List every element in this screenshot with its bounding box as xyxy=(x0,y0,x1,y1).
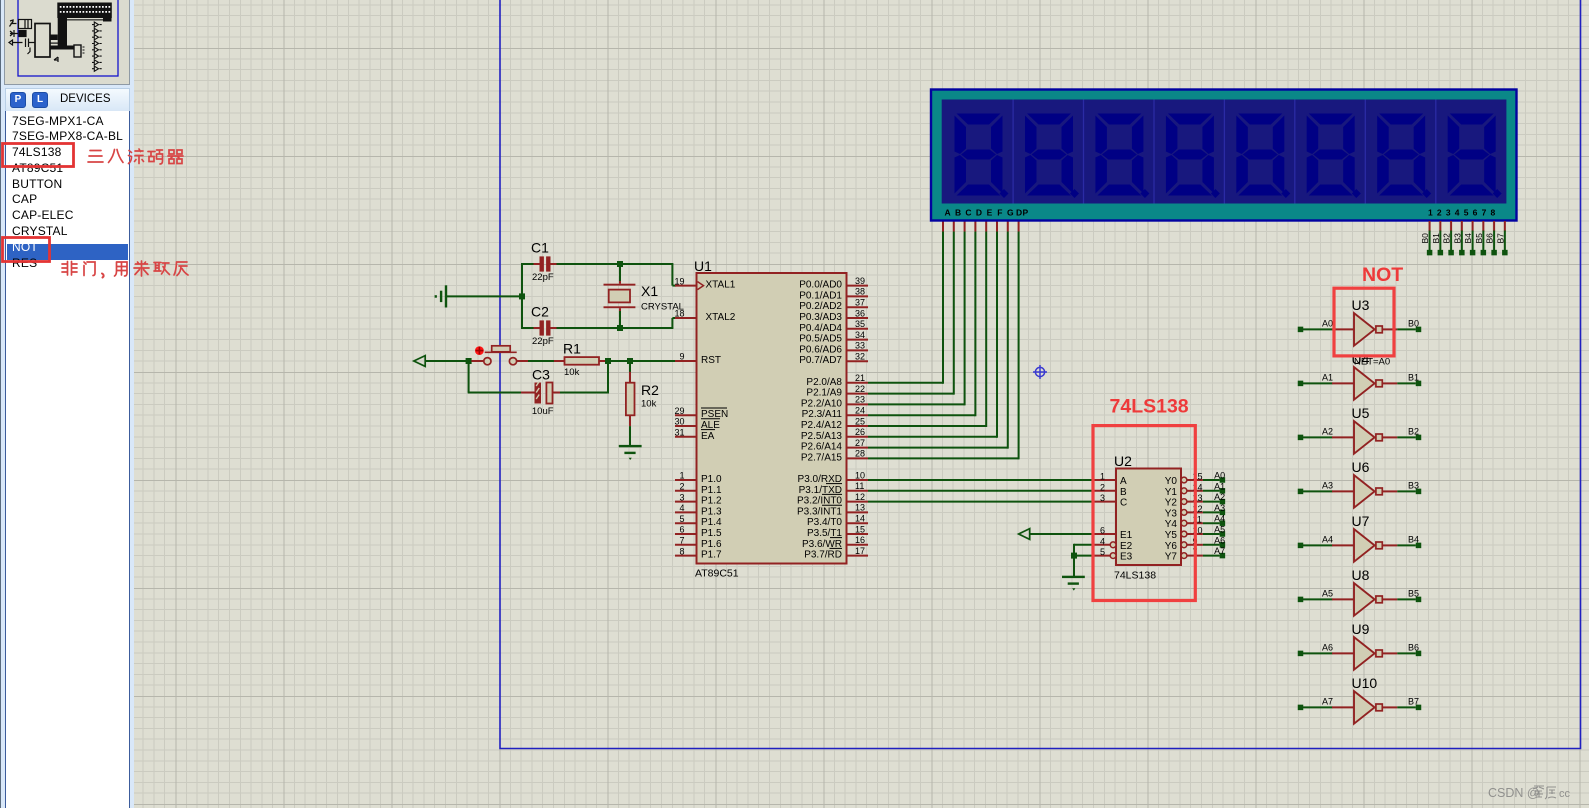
svg-text:P2.6/A14: P2.6/A14 xyxy=(801,442,843,453)
svg-text:38: 38 xyxy=(855,287,865,297)
wire P3.0 to 74LS138 A xyxy=(868,479,1094,481)
ground (left, rotated) xyxy=(445,285,447,307)
pin 31 EA xyxy=(675,436,697,438)
svg-text:P3.4/T0: P3.4/T0 xyxy=(807,517,842,528)
push button xyxy=(471,360,484,362)
svg-text:B: B xyxy=(1120,487,1127,498)
wire Y1 to net A1 xyxy=(1203,490,1220,492)
pin 25 P2.4/A12 xyxy=(847,425,869,427)
pin 32 P0.7/AD7 xyxy=(847,360,869,362)
svg-text:Y3: Y3 xyxy=(1165,508,1178,519)
pin 18 XTAL2 xyxy=(675,317,697,319)
wire C1 right to crystal junction xyxy=(551,263,558,265)
svg-text:DP: DP xyxy=(1016,208,1029,218)
svg-text:P1.2: P1.2 xyxy=(701,496,722,507)
wire P2.1 to display segment pin xyxy=(868,393,954,395)
svg-text:3: 3 xyxy=(679,492,684,502)
pin digit-select 7 xyxy=(1493,221,1495,232)
svg-text:P2.3/A11: P2.3/A11 xyxy=(802,409,843,420)
svg-text:A0: A0 xyxy=(1322,319,1333,329)
svg-text:A5: A5 xyxy=(1214,525,1225,535)
svg-text:39: 39 xyxy=(855,276,865,286)
origin crosshair marker xyxy=(1033,365,1047,379)
svg-text:74LS138: 74LS138 xyxy=(1110,396,1189,418)
wire P2.0 to display segment pin xyxy=(868,382,943,384)
svg-text:29: 29 xyxy=(674,406,684,416)
pin 26 P2.5/A13 xyxy=(847,436,869,438)
wire P2.7 to display segment pin xyxy=(868,457,1019,459)
svg-text:15: 15 xyxy=(855,524,865,534)
svg-text:5: 5 xyxy=(1100,547,1105,557)
svg-text:7: 7 xyxy=(679,536,684,546)
svg-text:Y5: Y5 xyxy=(1165,530,1178,541)
annotation text 三八译码器 xyxy=(88,151,103,163)
annotation red box around NOT list item xyxy=(3,238,50,262)
svg-text:NOT: NOT xyxy=(1362,264,1403,286)
pin 16 P3.6/WR xyxy=(847,544,869,546)
wire C3 right to R1 junction xyxy=(553,392,560,394)
pin 21 P2.0/A8 xyxy=(847,382,869,384)
svg-text:5: 5 xyxy=(679,514,684,524)
pin 37 P0.2/AD2 xyxy=(847,306,869,308)
svg-text:11: 11 xyxy=(855,481,864,491)
preview decoder xyxy=(74,45,81,57)
svg-text:A2: A2 xyxy=(1322,427,1333,437)
svg-text:17: 17 xyxy=(855,546,865,556)
svg-text:Y2: Y2 xyxy=(1165,498,1178,509)
svg-text:12345678: 12345678 xyxy=(1428,208,1499,218)
svg-text:6: 6 xyxy=(679,525,684,535)
wire Y2 to net A2 xyxy=(1203,501,1220,503)
pin 13 Y2 xyxy=(1181,499,1187,505)
svg-text:A0: A0 xyxy=(1214,471,1225,481)
terminal arrow (RST default) xyxy=(414,356,425,367)
wire P2.6 to display segment pin xyxy=(868,447,1008,449)
svg-text:U7: U7 xyxy=(1352,513,1370,529)
svg-text:74LS138: 74LS138 xyxy=(1114,570,1156,582)
svg-text:22pF: 22pF xyxy=(532,336,554,347)
svg-text:AT89C51: AT89C51 xyxy=(695,568,739,580)
svg-text:U3: U3 xyxy=(1352,297,1370,313)
svg-text:34: 34 xyxy=(855,330,865,340)
svg-text:P1.5: P1.5 xyxy=(701,528,722,539)
pin 12 Y3 xyxy=(1181,510,1187,516)
svg-text:33: 33 xyxy=(855,341,865,351)
svg-text:C1: C1 xyxy=(531,240,549,256)
pin 39 P0.0/AD0 xyxy=(847,285,869,287)
svg-text:P3.7/RD: P3.7/RD xyxy=(804,550,842,561)
wire Y3 to net A3 xyxy=(1203,511,1220,513)
wire P3.2 to 74LS138 C xyxy=(868,501,1094,503)
preview mcu xyxy=(35,24,50,58)
pin 19 XTAL1 xyxy=(675,285,697,287)
svg-text:P1.7: P1.7 xyxy=(701,550,722,561)
svg-text:C2: C2 xyxy=(531,304,549,320)
svg-text:16: 16 xyxy=(855,535,865,545)
annotation red box 74LS138 xyxy=(1093,426,1195,601)
pin digit-select 2 xyxy=(1439,221,1441,232)
svg-text:12: 12 xyxy=(855,492,865,502)
preview left components xyxy=(9,20,35,55)
pin 2 P1.1 xyxy=(675,490,697,492)
svg-text:35: 35 xyxy=(855,319,865,329)
wire corner up to XTAL2 xyxy=(671,318,673,329)
svg-text:Y6: Y6 xyxy=(1165,541,1178,552)
svg-text:A: A xyxy=(945,208,951,218)
svg-text:U8: U8 xyxy=(1352,567,1370,583)
svg-text:E3: E3 xyxy=(1120,552,1133,563)
wire to C3 xyxy=(468,392,522,394)
pin 29 PSEN xyxy=(675,414,697,416)
svg-text:P0.5/AD5: P0.5/AD5 xyxy=(799,334,842,345)
svg-text:13: 13 xyxy=(855,503,865,513)
pin 14 Y1 xyxy=(1181,488,1187,494)
wire Y0 to net A0 xyxy=(1203,479,1220,481)
svg-text:B2: B2 xyxy=(1408,427,1419,437)
pin 38 P0.1/AD1 xyxy=(847,295,869,297)
svg-text:9: 9 xyxy=(679,352,684,362)
svg-text:10uF: 10uF xyxy=(532,406,554,417)
pin 6 E1 xyxy=(1094,533,1116,535)
display 7SEG-MPX8-CA-BL frame xyxy=(931,90,1517,221)
pin 1 P1.0 xyxy=(675,479,697,481)
svg-text:4: 4 xyxy=(679,503,684,513)
wire Y6 to net A6 xyxy=(1203,544,1220,546)
pin digit-select 3 xyxy=(1450,221,1452,232)
wire Y5 to net A5 xyxy=(1203,533,1220,535)
wire C2 left xyxy=(521,327,534,329)
resistor R1 xyxy=(565,357,600,365)
node junction RST/button/C3 xyxy=(466,358,472,364)
wire X1 bottom lead xyxy=(619,308,621,311)
display digit 8 xyxy=(1448,114,1496,196)
svg-text:B7: B7 xyxy=(1408,697,1419,707)
svg-text:P0.3/AD3: P0.3/AD3 xyxy=(799,312,842,323)
svg-text:C: C xyxy=(965,208,971,218)
svg-text:B2: B2 xyxy=(1442,233,1452,244)
svg-text:22: 22 xyxy=(855,384,865,394)
svg-text:P0.1/AD1: P0.1/AD1 xyxy=(799,290,842,301)
annotation red box around 74LS138 list item xyxy=(3,144,74,167)
svg-text:26: 26 xyxy=(855,427,865,437)
svg-text:P1.4: P1.4 xyxy=(701,517,722,528)
resistor R2 xyxy=(626,383,635,416)
svg-text:18: 18 xyxy=(674,309,684,319)
svg-text:U10: U10 xyxy=(1352,675,1378,691)
svg-text:37: 37 xyxy=(855,298,865,308)
display digit 3 xyxy=(1095,114,1143,196)
svg-text:1: 1 xyxy=(679,471,684,481)
svg-text:P0.2/AD2: P0.2/AD2 xyxy=(799,301,842,312)
pin 4 E2 xyxy=(1094,544,1110,546)
wire arrow to button junction xyxy=(425,360,466,362)
wire C1 left to vertical rail xyxy=(521,263,534,265)
svg-text:6: 6 xyxy=(1100,526,1105,536)
svg-text:3: 3 xyxy=(1100,493,1105,503)
svg-text:A: A xyxy=(1120,476,1127,487)
pin 10 Y5 xyxy=(1181,531,1187,537)
wire ground to rail xyxy=(447,295,522,297)
pin 33 P0.6/AD6 xyxy=(847,349,869,351)
wire Y7 to net A7 xyxy=(1203,555,1220,557)
svg-text:21: 21 xyxy=(855,373,865,383)
wire C2 right to crystal bottom junction xyxy=(551,327,558,329)
node junction R2 branch xyxy=(627,358,633,364)
svg-text:X1: X1 xyxy=(641,283,658,299)
svg-text:U2: U2 xyxy=(1114,453,1132,469)
inverter U5 (A2 -> B2) xyxy=(1298,435,1304,441)
svg-text:A6: A6 xyxy=(1214,535,1225,545)
svg-text:36: 36 xyxy=(855,308,865,318)
wire P2.4 to display segment pin xyxy=(868,425,986,427)
pin 15 P3.5/T1 xyxy=(847,533,869,535)
pin 15 Y0 xyxy=(1181,477,1187,483)
svg-text:B3: B3 xyxy=(1452,233,1462,244)
crystal X1 xyxy=(604,284,636,286)
svg-text:P0.6/AD6: P0.6/AD6 xyxy=(799,344,842,355)
svg-text:B1: B1 xyxy=(1431,233,1441,244)
pin 27 P2.6/A14 xyxy=(847,447,869,449)
pin 11 Y4 xyxy=(1181,520,1187,526)
pin 3 P1.2 xyxy=(675,501,697,503)
svg-text:B5: B5 xyxy=(1408,589,1419,599)
svg-text:B1: B1 xyxy=(1408,373,1419,383)
wire corner down to XTAL1 xyxy=(671,263,673,285)
svg-text:B: B xyxy=(955,208,961,218)
wire Y4 to net A4 xyxy=(1203,522,1220,524)
svg-text:E1: E1 xyxy=(1120,530,1133,541)
svg-text:P2.0/A8: P2.0/A8 xyxy=(806,377,842,388)
svg-text:P2.2/A10: P2.2/A10 xyxy=(801,398,843,409)
svg-text:P2.1/A9: P2.1/A9 xyxy=(806,388,842,399)
svg-text:U6: U6 xyxy=(1352,459,1370,475)
clock indicator XTAL1 xyxy=(698,282,704,290)
svg-text:R1: R1 xyxy=(563,341,581,357)
inverter U4 (A1 -> B1) xyxy=(1298,381,1304,387)
pin 11 P3.1/TXD xyxy=(847,490,869,492)
wire P2.3 to display segment pin xyxy=(868,414,975,416)
svg-text:A5: A5 xyxy=(1322,589,1333,599)
svg-text:E2: E2 xyxy=(1120,541,1133,552)
svg-text:U1: U1 xyxy=(694,258,712,274)
pin digit-select 6 xyxy=(1482,221,1484,232)
wire button junction down xyxy=(468,361,470,393)
svg-text:P0.4/AD4: P0.4/AD4 xyxy=(799,323,842,334)
inverter U8 (A5 -> B5) xyxy=(1298,597,1304,603)
wire R1 junction to R2 junction xyxy=(608,360,630,362)
svg-text:24: 24 xyxy=(855,406,865,416)
wire R2 top lead xyxy=(629,361,631,372)
svg-text:B5: B5 xyxy=(1474,233,1484,244)
pin 5 E3 xyxy=(1094,555,1110,557)
svg-text:Y1: Y1 xyxy=(1165,487,1178,498)
svg-text:Y4: Y4 xyxy=(1165,519,1178,530)
svg-text:P1.0: P1.0 xyxy=(701,474,722,485)
svg-text:EA: EA xyxy=(701,431,715,442)
pin 28 P2.7/A15 xyxy=(847,457,869,459)
svg-text:31: 31 xyxy=(674,428,684,438)
pin 5 P1.4 xyxy=(675,522,697,524)
svg-text:U5: U5 xyxy=(1352,405,1370,421)
svg-text:P0.0/AD0: P0.0/AD0 xyxy=(799,280,842,291)
pin 1 A xyxy=(1094,479,1116,481)
svg-text:F: F xyxy=(997,208,1002,218)
preview bus xyxy=(51,18,74,50)
svg-text:B0: B0 xyxy=(1408,319,1419,329)
wire button to R1 xyxy=(517,360,528,362)
display digit 1 xyxy=(955,114,1003,196)
inverter U3 (A0 -> B0) xyxy=(1298,327,1304,333)
wire P3.1 to 74LS138 B xyxy=(868,490,1094,492)
terminal arrow E1 xyxy=(1019,529,1030,540)
svg-text:A3: A3 xyxy=(1214,503,1225,513)
svg-text:A4: A4 xyxy=(1322,535,1333,545)
svg-text:XTAL1: XTAL1 xyxy=(706,280,736,291)
pin 17 P3.7/RD xyxy=(847,555,869,557)
wire E2/E3 tie xyxy=(1074,544,1094,546)
svg-text:P0.7/AD7: P0.7/AD7 xyxy=(799,355,842,366)
display digit 4 xyxy=(1166,114,1214,196)
svg-text:A7: A7 xyxy=(1322,697,1333,707)
svg-text:4: 4 xyxy=(1100,536,1105,546)
svg-text:P1.3: P1.3 xyxy=(701,506,722,517)
svg-text:P3.3/INT1: P3.3/INT1 xyxy=(797,506,842,517)
pin 10 P3.0/RXD xyxy=(847,479,869,481)
svg-text:A4: A4 xyxy=(1214,514,1225,524)
inverter U7 (A4 -> B4) xyxy=(1298,543,1304,549)
mcu U1 AT89C51 body xyxy=(697,273,847,564)
svg-text:10k: 10k xyxy=(641,399,657,410)
svg-text:25: 25 xyxy=(855,416,865,426)
pin 13 P3.3/INT1 xyxy=(847,511,869,513)
svg-text:B6: B6 xyxy=(1485,233,1495,244)
svg-text:G: G xyxy=(1007,208,1014,218)
pin 3 C xyxy=(1094,501,1116,503)
annotation red box NOT xyxy=(1334,288,1394,356)
svg-text:B7: B7 xyxy=(1495,233,1505,244)
pin 2 B xyxy=(1094,490,1116,492)
svg-text:B4: B4 xyxy=(1463,233,1473,244)
pin 9 Y6 xyxy=(1181,542,1187,548)
node junction C2/X1 xyxy=(617,325,623,331)
svg-text:2: 2 xyxy=(679,482,684,492)
pin digit-select 8 xyxy=(1504,221,1506,232)
capacitor C3 (electrolytic) xyxy=(535,383,542,404)
node junction C1/X1 xyxy=(617,261,623,267)
pin digit-select 4 xyxy=(1461,221,1463,232)
preview NOT gates xyxy=(92,22,102,71)
svg-text:B6: B6 xyxy=(1408,643,1419,653)
svg-text:22pF: 22pF xyxy=(532,272,554,283)
svg-text:NET=A0: NET=A0 xyxy=(1354,356,1390,367)
svg-text:A6: A6 xyxy=(1322,643,1333,653)
svg-text:E: E xyxy=(987,208,993,218)
inverter U10 (A7 -> B7) xyxy=(1298,705,1304,711)
ground (under R2) xyxy=(619,445,642,447)
svg-text:RST: RST xyxy=(701,355,721,366)
inverter U6 (A3 -> B3) xyxy=(1298,489,1304,495)
pin 24 P2.3/A11 xyxy=(847,414,869,416)
svg-text:A1: A1 xyxy=(1322,373,1333,383)
svg-text:P1.6: P1.6 xyxy=(701,539,722,550)
svg-text:B4: B4 xyxy=(1408,535,1419,545)
svg-text:A3: A3 xyxy=(1322,481,1333,491)
node junction rail/ground xyxy=(519,293,525,299)
button interactive red widget xyxy=(475,346,484,355)
capacitor C2 xyxy=(540,320,544,335)
svg-text:27: 27 xyxy=(855,438,865,448)
wire vertical rail C1-C2 xyxy=(521,263,523,329)
svg-text:14: 14 xyxy=(855,514,865,524)
svg-text:B0: B0 xyxy=(1420,233,1430,244)
pin 34 P0.5/AD5 xyxy=(847,339,869,341)
capacitor C1 xyxy=(540,256,544,271)
svg-text:U9: U9 xyxy=(1352,621,1370,637)
inverter U9 (A6 -> B6) xyxy=(1298,651,1304,657)
sheet border xyxy=(500,0,1581,749)
svg-text:P2.7/A15: P2.7/A15 xyxy=(801,452,843,463)
pin 8 P1.7 xyxy=(675,555,697,557)
svg-text:R2: R2 xyxy=(641,382,659,398)
svg-text:Y7: Y7 xyxy=(1165,552,1178,563)
svg-text:D: D xyxy=(976,208,982,218)
wire P2.2 to display segment pin xyxy=(868,403,965,405)
svg-text:P2.4/A12: P2.4/A12 xyxy=(801,420,843,431)
display digit 5 xyxy=(1236,114,1284,196)
wire P2.5 to display segment pin xyxy=(868,436,997,438)
display digit 2 xyxy=(1025,114,1073,196)
pin 30 ALE xyxy=(675,425,697,427)
svg-text:P2.5/A13: P2.5/A13 xyxy=(801,431,843,442)
node junction R1/C3 branch xyxy=(605,358,611,364)
svg-text:A7: A7 xyxy=(1214,546,1225,556)
svg-text:C: C xyxy=(1120,498,1127,509)
pin 14 P3.4/T0 xyxy=(847,522,869,524)
svg-text:10k: 10k xyxy=(564,367,580,378)
pin 9 RST xyxy=(675,360,697,362)
svg-text:A2: A2 xyxy=(1214,492,1225,502)
svg-text:XTAL2: XTAL2 xyxy=(706,312,736,323)
pin 36 P0.3/AD3 xyxy=(847,317,869,319)
svg-text:A1: A1 xyxy=(1214,481,1225,491)
wire R2 bottom lead xyxy=(629,415,631,426)
pin 35 P0.4/AD4 xyxy=(847,328,869,330)
wire X1 top lead xyxy=(619,264,621,281)
pin 4 P1.3 xyxy=(675,511,697,513)
display digit 7 xyxy=(1377,114,1425,196)
svg-text:cc: cc xyxy=(1559,788,1571,800)
pin 12 P3.2/INT0 xyxy=(847,501,869,503)
display digit 6 xyxy=(1307,114,1355,196)
svg-text:2: 2 xyxy=(1100,482,1105,492)
svg-text:8: 8 xyxy=(679,546,684,556)
svg-text:30: 30 xyxy=(674,417,684,427)
svg-text:23: 23 xyxy=(855,395,865,405)
svg-text:19: 19 xyxy=(674,276,684,286)
pin digit-select 5 xyxy=(1472,221,1474,232)
preview sheet outline xyxy=(18,0,118,76)
svg-text:CSDN @: CSDN @ xyxy=(1488,786,1540,800)
annotation text 非门，用来取反 xyxy=(62,262,77,276)
wire E1 xyxy=(1030,533,1095,535)
pin 22 P2.1/A9 xyxy=(847,393,869,395)
preview display block xyxy=(57,3,112,22)
svg-text:1: 1 xyxy=(1100,472,1105,482)
pin 7 Y7 xyxy=(1181,553,1187,559)
ground (under E2/E3) xyxy=(1062,576,1085,578)
svg-text:Y0: Y0 xyxy=(1165,476,1178,487)
svg-text:P1.1: P1.1 xyxy=(701,485,722,496)
